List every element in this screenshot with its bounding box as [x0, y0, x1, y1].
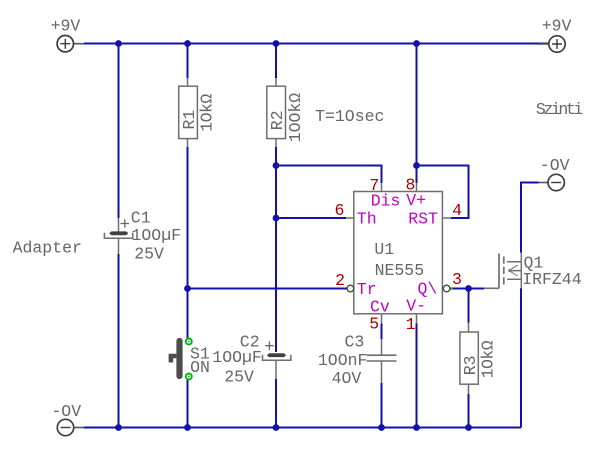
wire pin4 route [417, 166, 469, 219]
wire R3 bottom [468, 394, 470, 428]
svg-text:C1: C1 [131, 209, 151, 228]
svg-text:1OOµF: 1OOµF [212, 348, 262, 367]
pin 3 bubble [443, 285, 450, 292]
transistor Q1 [484, 253, 521, 289]
wire C3 bottom [381, 383, 383, 428]
pin 1 stub [416, 314, 418, 324]
wire S1 bottom [187, 380, 189, 428]
wire pin7 route [276, 166, 382, 184]
svg-text:1OOkΩ: 1OOkΩ [286, 93, 305, 143]
node R2/pin6 [273, 215, 280, 222]
wire pin2 trigger [188, 288, 347, 290]
svg-text:ON: ON [190, 358, 210, 377]
wire right -0V to Q1 drain [521, 183, 539, 253]
wire R1 top [187, 44, 189, 79]
resistor R2 [267, 78, 305, 147]
svg-text:RST: RST [408, 209, 438, 228]
node bottom rail C1 [115, 424, 122, 431]
wire C1 branch upper [118, 44, 120, 219]
svg-text:R1: R1 [180, 110, 199, 130]
node bottom rail C3 [378, 424, 385, 431]
node bottom rail pin1 [413, 424, 420, 431]
wire R1 bottom to S1 [187, 147, 189, 338]
capacitor C1 [104, 218, 132, 254]
pin 8 stub [416, 183, 418, 192]
wire pin1 to rail [416, 324, 418, 428]
node top rail R1 [184, 40, 191, 47]
wire R2 bottom to C2 [275, 147, 277, 352]
node bottom rail S1 [184, 424, 191, 431]
terminal +9V right [539, 36, 566, 52]
svg-text:IRFZ44: IRFZ44 [522, 270, 582, 289]
svg-text:V-: V- [406, 297, 426, 316]
svg-text:2: 2 [335, 271, 345, 290]
node pin3 connection [451, 287, 453, 289]
wire pin8 vertical [416, 44, 418, 184]
svg-text:1OOnF: 1OOnF [318, 351, 368, 370]
wire pin5 to C3 [381, 324, 383, 340]
svg-text:Adapter: Adapter [13, 239, 82, 258]
node pin8/pin4 [413, 162, 420, 169]
svg-text:R2: R2 [268, 110, 287, 130]
svg-text:C3: C3 [345, 333, 365, 352]
svg-text:4OV: 4OV [332, 369, 362, 388]
node trigger/S1 [184, 285, 191, 292]
svg-text:NE555: NE555 [375, 261, 425, 280]
svg-text:4: 4 [452, 201, 462, 220]
node top rail pin8 [413, 40, 420, 47]
wire bottom rail [84, 427, 521, 429]
svg-text:+9V: +9V [542, 17, 572, 36]
svg-text:8: 8 [406, 175, 416, 194]
pin 7 stub [381, 183, 383, 192]
svg-text:7: 7 [369, 176, 379, 195]
wire C2 bottom [275, 379, 277, 428]
svg-text:-OV: -OV [540, 156, 570, 175]
svg-text:U1: U1 [374, 240, 394, 259]
svg-text:25V: 25V [134, 244, 164, 263]
resistor R3 [460, 323, 498, 395]
svg-text:1OkΩ: 1OkΩ [198, 94, 217, 132]
capacitor C2 [263, 341, 291, 379]
terminal -0V left [57, 419, 84, 435]
wire R3 top [468, 289, 470, 323]
resistor R1 [179, 78, 217, 147]
node bottom rail R3 [465, 424, 472, 431]
wire top rail [84, 43, 549, 45]
capacitor C3 [367, 339, 397, 383]
node R2/pin7 [273, 162, 280, 169]
terminal -0V right [539, 174, 565, 190]
terminal +9V left [57, 36, 84, 52]
svg-text:1OOµF: 1OOµF [132, 226, 182, 245]
wire pin3 output [450, 288, 484, 290]
svg-text:1OkΩ: 1OkΩ [479, 340, 498, 378]
op-amp U1 NE555 box [354, 192, 443, 314]
node top rail C1 [115, 40, 122, 47]
svg-text:-OV: -OV [51, 402, 81, 421]
svg-text:1: 1 [406, 315, 416, 334]
node bottom rail C2 [273, 424, 280, 431]
svg-text:+9V: +9V [51, 16, 81, 35]
svg-text:R3: R3 [461, 355, 480, 375]
svg-text:5: 5 [369, 315, 379, 334]
svg-text:T=1Osec: T=1Osec [315, 107, 384, 126]
pin 4 stub [442, 217, 451, 219]
switch S1 [171, 339, 192, 380]
pin 6 stub [346, 217, 354, 219]
svg-text:Tr: Tr [357, 280, 377, 299]
wire Q1 source down [520, 288, 522, 427]
svg-text:Th: Th [357, 209, 377, 228]
pin 5 stub [381, 314, 383, 324]
wire C1 branch lower [118, 254, 120, 428]
node output/R3 [465, 285, 472, 292]
svg-text:3: 3 [452, 270, 462, 289]
pin 2 bubble [347, 285, 354, 292]
wire R2 top [275, 44, 277, 79]
wire pin6 route [276, 217, 346, 219]
svg-text:Szinti: Szinti [536, 100, 584, 119]
svg-text:25V: 25V [224, 368, 254, 387]
node top rail R2 [273, 40, 280, 47]
svg-text:6: 6 [335, 201, 345, 220]
